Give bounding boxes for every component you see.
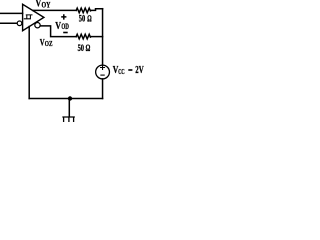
wire node Y (top output) [33,9,76,11]
source plus sign [101,66,105,70]
ground symbol [63,117,74,121]
junction dot [68,96,72,100]
wire left rail up to U1 pin [28,27,30,99]
resistor R1 50ohm [76,8,90,13]
svg-text:OY: OY [42,1,51,10]
svg-text:OD: OD [61,22,69,31]
svg-text:Ω: Ω [87,14,91,24]
svg-text:50: 50 [79,14,86,24]
svg-text:V: V [36,0,42,9]
svg-text:V: V [55,20,61,32]
wire input A (top) [0,12,23,14]
hysteresis symbol inside U1 [24,15,32,19]
input bubble on U1 [17,21,22,26]
label minus of Vod [63,32,67,34]
wire right rail (top) [102,9,104,65]
svg-text:50: 50 [78,43,85,54]
resistor R2 50ohm [76,34,90,39]
wire input B (bottom) [0,22,17,24]
wire source to bottom rail [102,79,104,99]
voltage source VS circle [96,65,110,79]
wire R2 to rail [90,36,102,38]
output bubble Z on U1 [35,23,40,28]
source minus sign [101,74,104,76]
wire ground stem [68,99,70,117]
wire R1 to rail [90,9,102,11]
wire bottom rail [29,98,102,100]
svg-text:Ω: Ω [86,43,91,54]
op-amp U1 (ECL gate triangle) [23,4,44,30]
svg-text:CC: CC [118,67,124,76]
wire node Z (lower output) [40,26,76,37]
svg-text:OZ: OZ [45,39,53,48]
svg-text:2V: 2V [135,64,143,76]
label plus of Vod [61,14,66,19]
